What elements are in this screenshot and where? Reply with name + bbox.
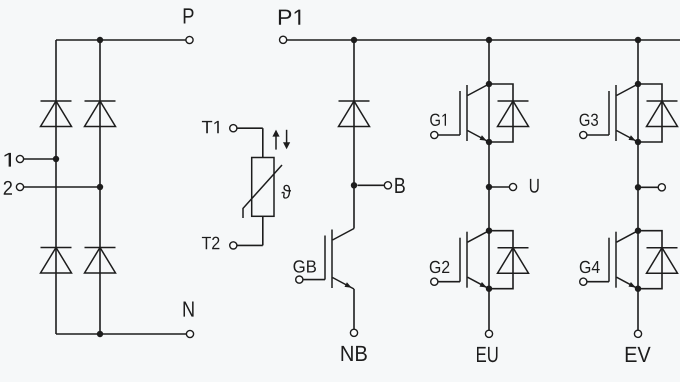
terminal B [384,182,391,189]
junction node 2 [97,184,103,190]
label GB [294,260,305,272]
wire phase U rail [488,40,490,330]
diode D7 [498,248,529,274]
transistor Q2 G1 [460,84,489,142]
label 1 [4,153,10,167]
label G2 [430,261,440,273]
junction Q5 emitter [635,286,641,292]
transistor Q5 G4 [609,231,638,289]
wire D6 branch [489,84,513,142]
junction Q2 emitter [486,139,492,145]
label G1 [430,114,440,126]
wire thermistor bottom lead [262,216,264,245]
wire node U lead [489,186,509,188]
terminal 2 [16,183,23,190]
thermistor up arrow [275,135,277,150]
junction Q5 collector [635,228,641,234]
terminal U [509,183,516,190]
terminal G4 [580,278,587,285]
transistor Q4 G3 [609,84,638,142]
label NB [342,346,353,361]
wire GB gate lead [299,279,325,281]
terminal 1 [16,155,23,162]
wire chopper emitter to NB [353,289,355,329]
diode D4 [85,248,116,274]
junction node U [486,184,492,190]
thermistor down arrow [286,130,288,144]
terminal EU [485,330,492,337]
wire right bridge rail [99,40,101,334]
wire bridge bottom to N [56,333,187,335]
wire chopper rail upper [353,40,355,229]
terminal G2 [431,278,438,285]
wire bridge top to P [56,39,186,41]
terminal G1 [431,131,438,138]
terminal T1 [230,125,237,132]
wire thermistor top lead [262,128,264,157]
thermistor RT1 diagonal [243,165,282,218]
junction bridge bottom [97,331,103,337]
label B [395,178,405,193]
junction node 1 [53,156,59,162]
terminal V [658,184,665,191]
wire node V lead [638,186,658,188]
junction bus chopper [351,37,357,43]
diode D8 [647,101,678,127]
junction node B [351,182,357,188]
wire left bridge rail [55,40,57,334]
wire D9 branch [638,231,662,289]
transistor Q1 GB [325,229,354,290]
terminal EV [634,330,641,337]
terminal T2 [230,242,237,249]
terminal N [186,330,193,337]
wire G1 gate lead [434,134,460,136]
wire phase V rail [637,40,639,330]
label T1 [202,121,212,133]
wire input 2 [24,186,101,188]
wire T1 lead [237,127,263,129]
wire T2 lead [237,244,263,246]
thermistor theta label [281,185,291,199]
wire G4 gate lead [583,281,609,283]
label EU [477,347,486,362]
junction node V [635,184,641,190]
junction bridge top [97,37,103,43]
terminal G3 [580,131,587,138]
diode D9 [647,248,678,274]
diode D3 [41,248,72,274]
wire input 1 [24,158,57,160]
terminal NB [350,329,357,336]
wire D7 branch [489,231,513,289]
junction Q4 emitter [635,139,641,145]
diode D2 [85,101,116,127]
junction Q2 collector [486,81,492,87]
wire node B lead [358,184,385,186]
transistor Q3 G2 [460,231,489,289]
junction Q3 emitter [486,286,492,292]
label T2 [202,237,211,249]
junction bus phase V [635,37,641,43]
junction Q4 collector [635,81,641,87]
label P [184,8,194,23]
wire P1 bus [287,39,680,41]
terminal GB [296,276,303,283]
label G3 [580,114,590,126]
wire G2 gate lead [434,281,460,283]
label G4 [580,261,590,273]
label U [530,179,539,193]
label N [184,301,194,316]
thermistor RT1 body [252,158,274,217]
wire D8 branch [638,84,662,142]
label P1 [279,10,291,25]
terminal P1 [280,36,287,43]
junction bus phase U [486,37,492,43]
terminal P [186,36,193,43]
diode D6 [498,101,529,127]
label EV [626,347,637,362]
diode D1 [41,101,72,127]
junction Q3 collector [486,228,492,234]
diode D5 [339,101,370,127]
label 2 [4,181,12,195]
wire G3 gate lead [583,134,609,136]
